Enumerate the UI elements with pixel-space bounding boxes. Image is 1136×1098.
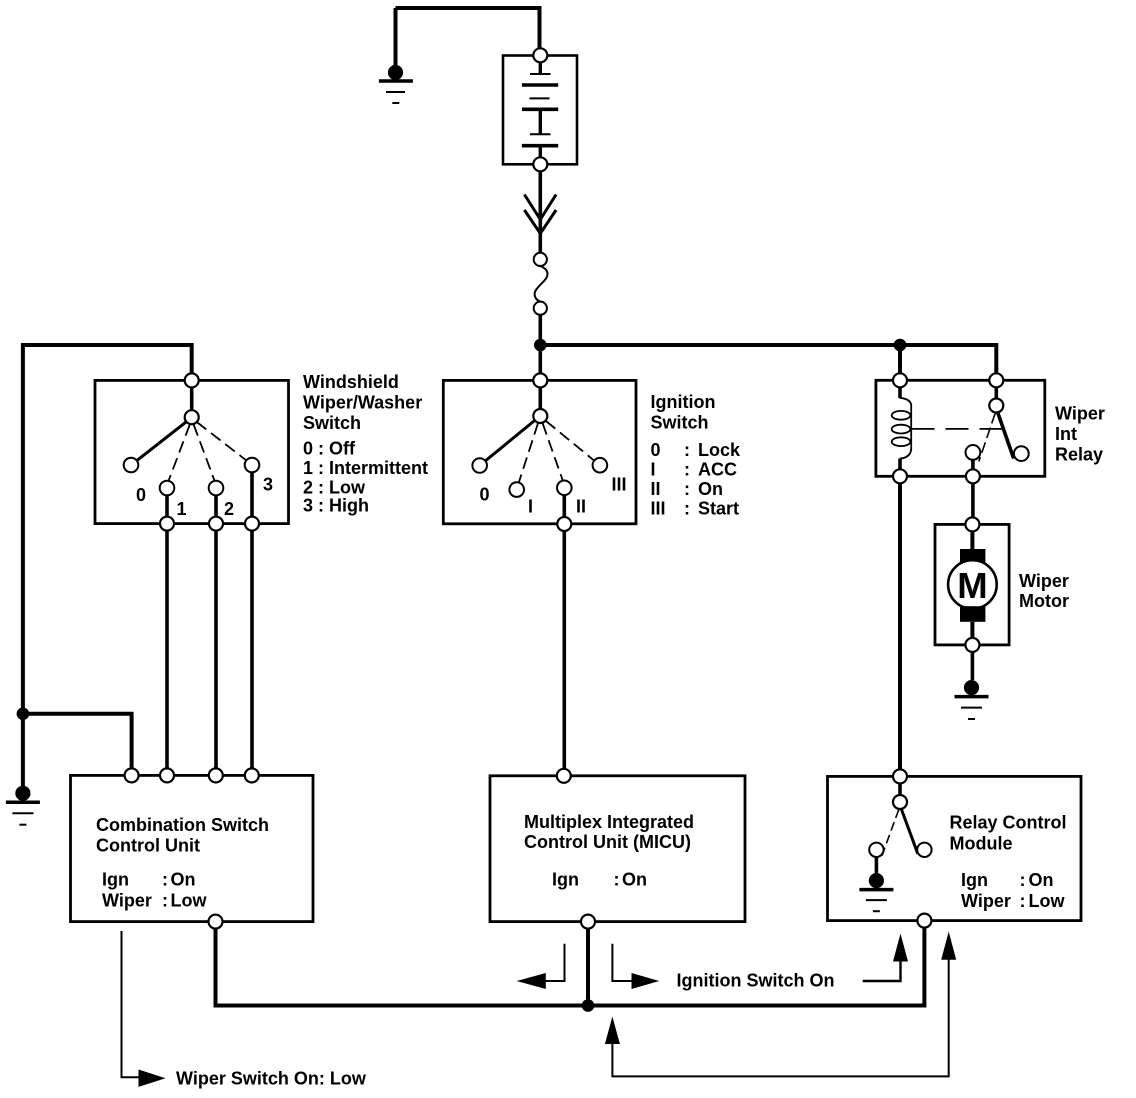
svg-text:Wiper: Wiper [1019, 571, 1069, 591]
U3 ground contact stem [875, 857, 879, 873]
SW2 pin (bottom) [557, 517, 571, 531]
wire K1 to wiper motor [971, 483, 975, 517]
SW2 contact II stem [562, 495, 566, 517]
label: Multiplex Integrated Control Unit (MICU) [524, 812, 694, 890]
U1 pin (top, ground rail) [125, 768, 139, 782]
U3 pin (bottom) [917, 914, 931, 928]
svg-text:2 : Low: 2 : Low [303, 478, 366, 498]
fuse connector pin (lower) [534, 302, 547, 315]
svg-text:Switch: Switch [651, 413, 709, 433]
svg-text:II: II [651, 479, 661, 499]
SW2 contact 0 [472, 458, 487, 473]
svg-text:Ign: Ign [552, 870, 579, 890]
svg-text:0: 0 [136, 485, 146, 505]
K1 motor throw contact [966, 445, 981, 460]
wire SW1 pin3 to combination unit [250, 531, 254, 769]
U1 pin (bottom) [209, 915, 223, 929]
main power bus wire [540, 345, 996, 380]
SW1 common stem [190, 387, 194, 410]
SW1 contact 1 stem [165, 495, 169, 516]
windshield wiper/washer switch SW1 box [95, 380, 289, 523]
svg-text::: : [1020, 870, 1026, 890]
arrowhead (up) into U3 right [941, 932, 956, 960]
svg-text:0: 0 [651, 440, 661, 460]
svg-text:Motor: Motor [1019, 591, 1069, 611]
U1 pin (top, wiper sw 1) [160, 768, 174, 782]
svg-text:Wiper Switch On: Low: Wiper Switch On: Low [176, 1069, 367, 1089]
svg-text:1 : Intermittent: 1 : Intermittent [303, 458, 428, 478]
svg-text:3 : High: 3 : High [303, 496, 369, 516]
SW2 contact I [509, 482, 524, 497]
svg-text:Windshield: Windshield [303, 372, 399, 392]
svg-text:Start: Start [698, 499, 739, 519]
svg-text:M: M [957, 565, 987, 606]
battery cells [522, 62, 558, 157]
SW1 dashed arm to position 1 [169, 425, 190, 481]
U2 pin (bottom) [581, 915, 595, 929]
arrowhead (left) ignition switch on [517, 973, 546, 989]
SW2 dashed arm to position II [543, 423, 563, 481]
svg-text:Ign: Ign [961, 870, 988, 890]
U3 switch arm (dashed, to ground contact) [882, 810, 899, 856]
wire U2 bottom pin to bottom bus [586, 929, 590, 1006]
svg-text::: : [684, 479, 690, 499]
K1 pin (switch top) [989, 373, 1003, 387]
arrow line: ignition switch on signal (left from U2) [544, 944, 565, 981]
arrowhead (up) at bottom bus [605, 1017, 620, 1045]
K1 mechanical linkage (dashed) [912, 428, 1003, 430]
U3 switch arm (solid, open position) [902, 810, 918, 854]
SW1 contact 0 [124, 458, 139, 473]
svg-text:Lock: Lock [698, 440, 741, 460]
combination switch control unit U1 box [71, 775, 314, 921]
SW2 contact III [593, 458, 608, 473]
U3 ground contact [869, 843, 883, 857]
svg-text:Wiper: Wiper [961, 891, 1011, 911]
svg-text:Low: Low [1029, 891, 1066, 911]
battery terminal pin (top) [533, 48, 547, 62]
arrow line: ignition switch on into U3 [863, 959, 901, 981]
K1 pin (switch bottom) [966, 469, 980, 483]
SW1 dashed arm to position 2 [194, 425, 215, 481]
label: Wiper Motor [1019, 571, 1069, 611]
svg-text:Relay Control: Relay Control [950, 813, 1067, 833]
node: bottom bus junction [582, 999, 595, 1012]
svg-text:On: On [698, 479, 723, 499]
M1 bottom stem [970, 622, 974, 638]
battery box [503, 56, 577, 165]
label: Ignition Switch [651, 392, 742, 519]
K1 coil bottom stem [898, 459, 902, 470]
svg-text:Low: Low [171, 891, 208, 911]
SW1 contact 3 stem [250, 472, 254, 516]
fuse squiggle wire [535, 266, 548, 302]
U3 switch stem [898, 783, 902, 795]
wire ground rail jog to combination unit pin [23, 714, 132, 776]
K1 switch stem [994, 387, 998, 398]
svg-text:Multiplex Integrated: Multiplex Integrated [524, 812, 694, 832]
svg-text::: : [162, 870, 168, 890]
svg-text:Int: Int [1055, 424, 1077, 444]
svg-text:I: I [651, 460, 656, 480]
svg-text:ACC: ACC [698, 460, 737, 480]
SW2 dashed arm to position I [519, 423, 538, 482]
svg-text:II: II [576, 497, 586, 517]
SW2 dashed arm to position III [546, 421, 594, 461]
wire SW2 to MICU [562, 531, 566, 769]
svg-text:On: On [171, 870, 196, 890]
K1 switch pivot contact [989, 399, 1003, 413]
SW1 pivot contact [185, 410, 199, 424]
svg-text:Switch: Switch [303, 413, 361, 433]
svg-text:3: 3 [263, 475, 273, 495]
svg-text:On: On [1029, 870, 1054, 890]
svg-text:Ignition: Ignition [651, 392, 716, 412]
svg-text::: : [684, 499, 690, 519]
K1 pin (coil top) [893, 373, 907, 387]
svg-text:I: I [528, 497, 533, 517]
ground G1 (battery positive feed ground, top left) [379, 8, 413, 103]
wiper int relay K1 box [876, 380, 1045, 476]
svg-text:Ignition Switch On: Ignition Switch On [677, 971, 835, 991]
M1 brush (top) [960, 549, 985, 564]
wire SW1 pin1 to combination unit [165, 531, 169, 769]
label: Windshield Wiper/Washer Switch [303, 372, 428, 516]
node: ground rail junction [17, 708, 30, 721]
arrow line: bus signal into U3 (bottom loop) [612, 960, 948, 1077]
wire SW1 pin2 to combination unit [214, 531, 218, 769]
svg-text::: : [684, 440, 690, 460]
wiper motor M1 box [935, 524, 1009, 645]
relay control module U3 box [828, 776, 1082, 920]
wire U1 bottom pin to bottom bus [216, 929, 591, 1006]
U3 open contact [917, 843, 931, 857]
ground G2 (left rail ground) [6, 786, 40, 825]
K1 switch arm (solid, open position) [998, 412, 1014, 458]
K1 coil L1 [892, 398, 912, 459]
svg-text:Relay: Relay [1055, 445, 1103, 465]
fusible link chevrons [524, 195, 556, 234]
M1 brush (bottom) [960, 606, 985, 622]
arrowhead (right) wiper switch on [139, 1070, 166, 1087]
SW1 contact 3 [245, 458, 260, 473]
node: bus/battery junction [534, 339, 547, 352]
wire wiper switch common to left ground rail [23, 345, 192, 793]
SW1 pin 2 (bottom) [209, 517, 223, 531]
K1 pin (coil bottom) [893, 469, 907, 483]
svg-text:Wiper: Wiper [102, 891, 152, 911]
ground G3 (wiper motor ground) [955, 680, 989, 719]
node: bus/relay-coil junction [894, 339, 907, 352]
K1 switch arm (dashed, energized position) [979, 413, 996, 462]
wire K1 coil to relay control module [898, 483, 902, 769]
SW1 dashed arm to position 3 [197, 422, 247, 460]
SW2 pin (top common) [533, 373, 547, 387]
ignition switch SW2 box [443, 380, 636, 523]
svg-text:III: III [651, 499, 666, 519]
arrowhead (right) ignition switch on [632, 973, 660, 989]
U1 pin (top, wiper sw 3) [245, 768, 259, 782]
svg-text:On: On [622, 870, 647, 890]
wire bus junction down to ignition switch [538, 345, 542, 380]
SW1 wiper arm (solid, at position 0) [137, 422, 187, 461]
svg-text:1: 1 [177, 499, 187, 519]
SW2 wiper arm (solid) [485, 420, 535, 461]
SW1 contact 2 [209, 481, 224, 496]
svg-text:0: 0 [480, 485, 490, 505]
wire fuse to bus junction [538, 315, 542, 345]
svg-text:Module: Module [950, 834, 1013, 854]
SW1 pin (top common) [185, 373, 199, 387]
label: Combination Switch Control Unit [96, 815, 269, 911]
battery terminal pin (bottom) [533, 157, 547, 171]
M1 motor body [948, 560, 997, 609]
svg-text::: : [162, 891, 168, 911]
svg-text:Wiper/Washer: Wiper/Washer [303, 393, 422, 413]
svg-text:III: III [612, 475, 627, 495]
svg-text:0 : Off: 0 : Off [303, 439, 356, 459]
arrow line: wiper switch on signal from U1 [122, 931, 142, 1077]
SW2 pivot contact [533, 409, 547, 423]
arrowhead (up) into U3 left [893, 934, 908, 962]
SW2 contact II [557, 481, 572, 496]
multiplex integrated control unit U2 box [490, 776, 745, 922]
wire from ground G1 to battery positive terminal [396, 8, 540, 48]
U3 pin (top) [893, 769, 907, 783]
SW1 contact 2 stem [214, 495, 218, 516]
svg-text:Combination Switch: Combination Switch [96, 815, 269, 835]
U3 switch pivot contact [893, 795, 907, 809]
svg-text:Control Unit: Control Unit [96, 836, 200, 856]
wire M1 to ground [971, 652, 975, 680]
label: Wiper Int Relay [1055, 404, 1105, 465]
svg-text:Control Unit (MICU): Control Unit (MICU) [524, 832, 691, 852]
wire bottom bus to U3 bottom pin [588, 928, 924, 1006]
svg-text::: : [1020, 891, 1026, 911]
SW1 contact 1 [160, 481, 175, 496]
U1 pin (top, wiper sw 2) [209, 768, 223, 782]
SW2 common stem [538, 387, 542, 409]
svg-text:2: 2 [224, 499, 234, 519]
svg-text:Ign: Ign [102, 870, 129, 890]
K1 coil top stem [898, 387, 902, 398]
fuse connector pin (upper) [534, 253, 547, 266]
svg-text::: : [614, 870, 620, 890]
U2 pin (top) [557, 769, 571, 783]
ground G4 (relay control module internal ground) [859, 873, 893, 911]
M1 pin (bottom) [965, 638, 979, 652]
svg-text::: : [684, 460, 690, 480]
svg-text:Wiper: Wiper [1055, 404, 1105, 424]
SW1 pin 3 (bottom) [245, 517, 259, 531]
label: Relay Control Module [950, 813, 1067, 912]
arrow line: ignition switch on signal (right from U2) [612, 944, 633, 981]
K1 motor contact stem [971, 460, 975, 470]
K1 open throw contact [1014, 446, 1029, 461]
M1 pin (top) [965, 517, 979, 531]
M1 top stem [970, 531, 974, 549]
wire battery to fusible link [538, 171, 542, 253]
SW1 pin 1 (bottom) [160, 517, 174, 531]
wire bus junction down to relay coil terminal [898, 345, 902, 380]
